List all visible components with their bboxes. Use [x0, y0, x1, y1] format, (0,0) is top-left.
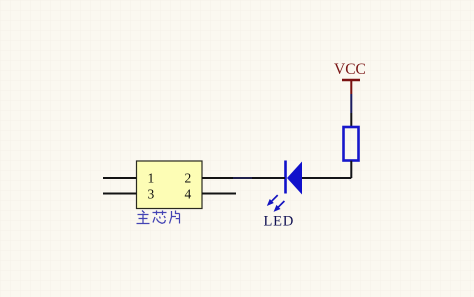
svg-text:2: 2 [185, 171, 192, 186]
svg-text:3: 3 [148, 187, 155, 202]
svg-text:4: 4 [185, 187, 192, 202]
svg-text:LED: LED [264, 214, 295, 230]
svg-text:VCC: VCC [334, 61, 366, 78]
svg-text:1: 1 [148, 171, 155, 186]
